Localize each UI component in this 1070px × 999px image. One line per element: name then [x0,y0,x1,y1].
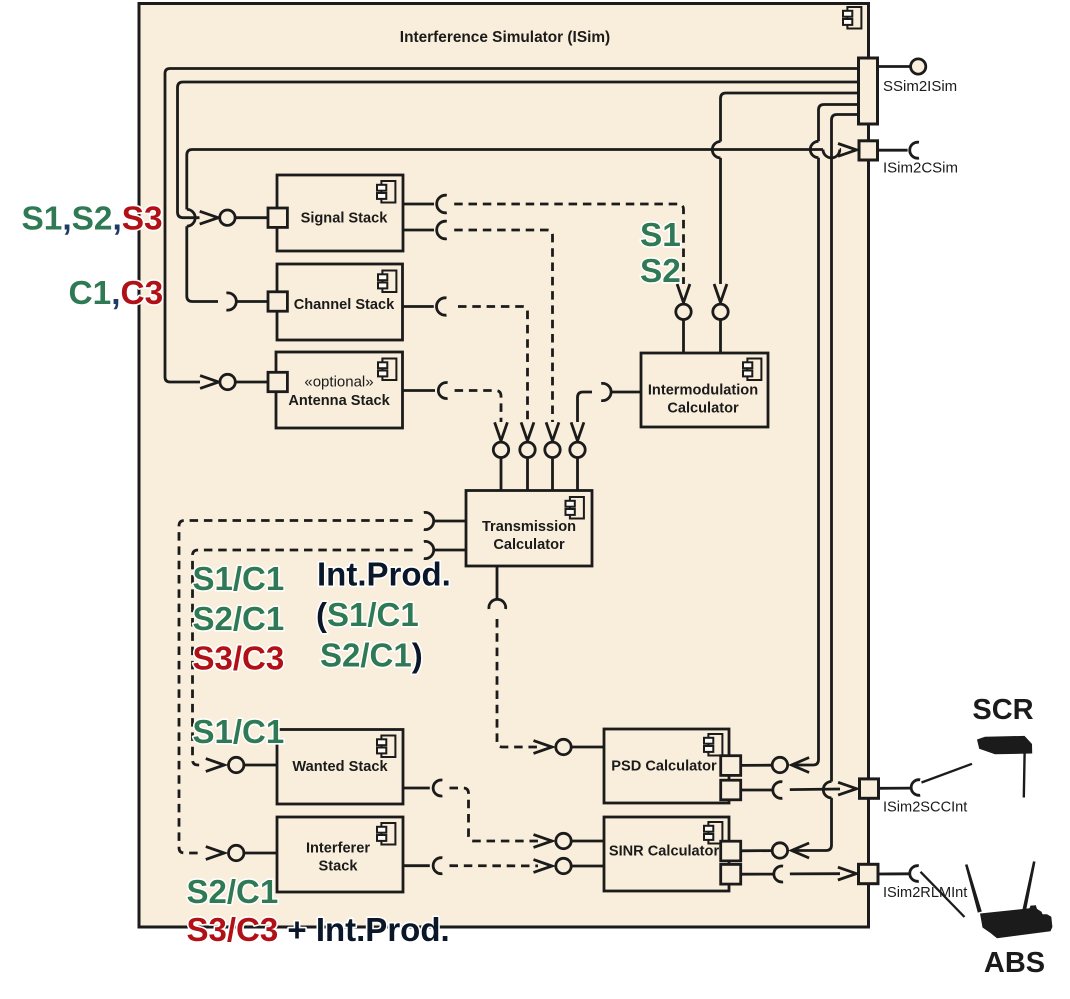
arrow into Transmission ball 2 [521,422,534,441]
node label S1,S2,S3 [22,201,163,238]
wire Channel socket to port [236,300,268,303]
ball interface Transmission input 4 [570,442,585,457]
wire PSD socket to ISim2SCCInt [790,788,840,791]
socket interface ISim2RLMInt external [910,866,919,882]
port SSim2ISim [859,58,878,124]
wire Signal to Transmission dashed [454,230,552,422]
svg-text:ABS: ABS [984,947,1045,979]
node label S1 [640,217,681,254]
ball interface SINR left 1 [556,833,571,848]
component Channel Stack box [277,264,403,340]
node label C1,C3 [69,275,164,312]
wire SINR input ball 2 to box [571,865,604,868]
component icon Intermodulation [743,359,761,381]
svg-text:Interference Simulator (ISim): Interference Simulator (ISim) [400,29,610,46]
socket interface Channel right [436,298,446,315]
component icon Wanted Stack [377,736,395,758]
component icon Antenna Stack [378,359,396,381]
wire Signal to Intermodulation dashed [454,204,683,284]
component icon Channel Stack [378,271,396,293]
ball interface SSim2ISim [911,59,926,74]
node label Int.Prod. [317,556,451,593]
wire PSD ball to port square [741,764,772,767]
label Transmission [482,519,576,535]
label ISim2CSim [883,160,958,177]
arrow into Transmission ball 4 [571,422,584,441]
port square PSD right 2 [721,780,741,800]
node label S1/C1 list [193,560,285,597]
socket interface Wanted right [433,780,442,796]
label PSD Calculator [611,759,717,775]
ball interface Transmission input 1 [493,442,508,457]
svg-text:ISim2SCCInt: ISim2SCCInt [883,800,967,816]
wire Transmission feedback to Interferer dashed [179,521,413,854]
svg-text:SCR: SCR [972,694,1033,726]
wire Intermodulation to Transmission [578,392,593,422]
wire PSD socket stub [741,789,773,792]
component icon SINR [704,822,722,844]
component Antenna Stack box [276,352,403,428]
svg-text:C1,C3: C1,C3 [69,275,164,312]
socket interface Transmission bottom [489,599,506,609]
component Transmission Calculator box [466,491,592,567]
wire Wanted to SINR dashed [450,788,539,841]
component Interferer Stack box [277,817,403,892]
svg-text:S2/C1: S2/C1 [193,600,285,637]
arrow into Transmission ball 3 [546,422,559,441]
wire SINR ball to port square [741,849,772,852]
wire Intermod socket to box [611,391,641,394]
svg-text:(S1/C1: (S1/C1 [316,596,419,633]
label Channel Stack [294,297,395,313]
svg-text:S1/C1: S1/C1 [193,560,285,597]
svg-text:S3/C3: S3/C3 [193,640,285,677]
svg-text:«optional»: «optional» [304,374,373,391]
wire SINR socket stub [741,873,774,876]
svg-text:S2/C1): S2/C1) [320,637,423,674]
wire Transmission ball 4 stem [576,458,579,491]
ball interface Interferer left [229,845,244,860]
port ISim2CSim [859,141,878,160]
label Calculator [667,401,739,417]
socket interface Signal right 2 [437,221,447,239]
port ISim2RLMInt [859,864,879,883]
label Interferer Stack [319,859,359,875]
ball interface Transmission input 3 [545,442,560,457]
wire Transmission left stub 1 [434,520,466,523]
ball interface Signal Stack left [220,210,235,225]
svg-text:Interferer: Interferer [306,841,370,857]
wire SINR socket to ISim2RLMInt [790,872,840,875]
socket interface PSD right [773,782,783,799]
ball interface Transmission input 2 [520,442,535,457]
label Antenna Stack [288,393,390,409]
wire Channel to Transmission dashed [458,307,528,423]
svg-text:PSD Calculator: PSD Calculator [611,759,717,775]
node label S2 [640,253,681,290]
wire Signal right stub 2 [403,229,434,232]
label Calculator 2 [493,537,565,553]
wire PSD input ball to box [571,746,604,749]
wire SSim2ISim to Antenna Stack [165,69,859,383]
wire Interferer right stub [403,864,430,867]
wire Antenna right stub [403,389,436,392]
node label S1/C1 wanted [193,713,285,750]
arrow into PSD input ball [534,741,553,754]
component Wanted Stack box [277,730,403,805]
arrow into ISim2RLMInt [838,867,857,880]
ball interface PSD Calculator right [772,757,787,772]
wire Transmission bottom stem [496,566,499,599]
svg-text:S1/C1: S1/C1 [193,713,285,750]
wire Wanted right stub [403,787,430,790]
arrow into Transmission ball 1 [495,422,508,441]
port square Antenna Stack left [268,372,287,391]
ball interface SINR left 2 [556,858,571,873]
socket interface ISim2SCCInt external [911,780,920,796]
wire Interferer to SINR dashed [450,864,539,867]
socket interface SINR right [774,866,783,882]
wire Signal ball to port [235,216,268,219]
label optional stereotype [304,374,373,391]
svg-text:ISim2CSim: ISim2CSim [883,160,958,177]
ball interface Wanted left [229,757,244,772]
arrow into Antenna ball [200,376,219,389]
label Wanted Stack [292,759,388,775]
node label S2/C1 interferer [187,873,279,910]
wire Wanted ball to box [244,764,277,767]
component icon Signal Stack [377,181,395,203]
svg-text:S2/C1: S2/C1 [187,873,279,910]
label ISim2SCCInt [883,800,967,816]
svg-text:S1,S2,S3: S1,S2,S3 [22,201,163,238]
port square SINR right 1 [721,841,741,861]
arrow into ISim2CSim port [838,144,857,157]
wire SSim2ISim ball stub [878,65,911,68]
label Signal Stack [301,211,389,227]
wire Transmission feedback to Wanted dashed [193,550,413,765]
svg-text:SINR Calculator: SINR Calculator [609,844,720,860]
wire Antenna ball to port [235,381,268,384]
wire SSim2ISim to SINR Calculator [793,115,859,851]
ball interface Intermodulation S1 input [676,304,691,319]
svg-text:Channel Stack: Channel Stack [294,297,395,313]
socket interface Interferer right [433,858,442,874]
wire Transmission left stub 2 [434,549,466,552]
port square SINR right 2 [721,864,741,884]
arrow into SINR input ball 2 [534,860,553,873]
wire ISim2CSim socket stub [878,149,908,152]
component PSD Calculator box [604,729,729,803]
socket interface Transmission left 1 [424,512,434,529]
socket interface Transmission left 2 [424,541,434,558]
svg-text:S1: S1 [640,217,681,254]
wire Transmission to PSD dashed [497,619,538,747]
port square PSD right 1 [721,756,741,776]
svg-text:Transmission: Transmission [482,519,576,535]
label ABS [984,947,1045,979]
wire Signal right stub 1 [403,203,434,206]
svg-text:ISim2RLMInt: ISim2RLMInt [883,885,967,901]
port square Signal Stack left [268,208,287,227]
svg-text:Wanted Stack: Wanted Stack [292,759,388,775]
socket interface Intermodulation left [601,383,611,400]
arrow into Signal ball [200,211,219,224]
wire Transmission ball 2 stem [526,458,529,491]
node label S2/C1 list [193,600,285,637]
node label S2/C1) [320,637,423,674]
component icon PSD [704,734,722,756]
ball interface SINR Calculator right [772,843,787,858]
icon SCR device [977,736,1032,798]
socket interface ISim2CSim [910,142,919,158]
socket interface Signal right 1 [437,195,447,213]
svg-text:SSim2ISim: SSim2ISim [883,78,957,95]
ball interface Intermodulation S2 input [713,304,728,319]
arrow into ISim2SCCInt [838,782,857,795]
wire Channel right stub [403,305,434,308]
node label S3/C3 list [193,640,285,677]
ball interface PSD left [556,739,571,754]
wire SSim2ISim to PSD Calculator [793,105,859,766]
socket interface Channel Stack left [226,293,236,310]
node label S3/C3 + Int.Prod. [187,911,450,948]
component icon outer box [843,7,861,29]
wire Antenna to Transmission dashed [455,391,501,423]
port square Channel Stack left [268,292,287,311]
port ISim2SCCInt [860,779,879,798]
wire diagonal to ABS [921,872,965,917]
component Intermodulation Calculator box [641,353,768,427]
svg-text:Signal Stack: Signal Stack [301,211,389,227]
wire ISim2RLMInt external stub [878,872,909,875]
label SINR Calculator [609,844,720,860]
arrow into SINR input ball 1 [534,835,553,848]
component SINR Calculator box [604,817,729,891]
icon ABS device [965,861,1052,938]
arrow into Wanted ball [206,759,225,772]
svg-text:Int.Prod.: Int.Prod. [317,556,451,593]
arrow into Interferer ball [206,847,225,860]
label SCR [972,694,1033,726]
component icon Transmission [566,497,584,519]
wire Channel Stack to ISim2CSim [187,150,841,302]
wire Intermod ball1 stem [682,320,685,354]
wire Transmission ball 3 stem [551,458,554,491]
wire SSim2ISim to Signal Stack [178,82,859,218]
arrow into Intermod ball2 [714,284,727,303]
label Interferer [306,841,370,857]
title Interference Simulator (ISim) [400,29,610,46]
svg-text:Antenna Stack: Antenna Stack [288,393,390,409]
label SSim2ISim [883,78,957,95]
svg-text:Calculator: Calculator [493,537,565,553]
component icon Interferer Stack [377,823,395,845]
wire ISim2SCCInt external stub [879,787,911,790]
label ISim2RLMInt [883,885,967,901]
svg-text:Calculator: Calculator [667,401,739,417]
component Interference Simulator (ISim) outer box [139,4,869,928]
node label (S1/C1 [316,596,419,633]
arrow into Intermod ball1 [677,284,690,303]
component Signal Stack box [277,175,403,251]
svg-text:S3/C3 + Int.Prod.: S3/C3 + Int.Prod. [187,911,450,948]
wire SINR input ball 1 to box [571,840,604,843]
label Intermodulation [648,383,758,399]
arrow into PSD ball [792,758,810,773]
ball interface Antenna Stack left [220,374,235,389]
wire Intermod ball2 stem [719,320,722,354]
svg-text:Stack: Stack [319,859,359,875]
socket interface Antenna right [438,383,447,399]
svg-text:S2: S2 [640,253,681,290]
wire SSim2ISim to Intermodulation [712,93,858,284]
wire Transmission ball 1 stem [500,458,503,491]
wire diagonal to SCR [922,764,973,783]
svg-text:Intermodulation: Intermodulation [648,383,758,399]
wire Interferer ball to box [244,852,277,855]
arrow into SINR ball [792,843,810,858]
